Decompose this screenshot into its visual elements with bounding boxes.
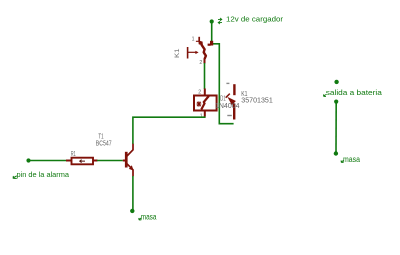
svg-text:12v de cargador: 12v de cargador bbox=[226, 15, 284, 24]
transistor T1: base stub bbox=[123, 160, 125, 162]
ground flag arrow bbox=[139, 218, 142, 220]
relay contact K1: bottom pin stub bbox=[204, 59, 206, 64]
net flag arrow for input bbox=[13, 176, 17, 179]
relay coil origin star bbox=[197, 101, 202, 106]
net flag arrow for salida bbox=[323, 94, 326, 96]
svg-text:1: 1 bbox=[192, 36, 195, 42]
wire: contact bottom to coil top bbox=[204, 63, 206, 89]
wire: junction to the right then down to diode bottom bbox=[213, 44, 234, 124]
node: left input dot bbox=[26, 158, 30, 162]
svg-text:pin de la alarma: pin de la alarma bbox=[17, 170, 70, 179]
transistor T1: base bar bbox=[125, 152, 128, 168]
diode D1: top unconnected pin mark bbox=[226, 83, 229, 84]
wire: input to resistor bbox=[29, 160, 67, 162]
relay contact K1: top terminal pin bbox=[198, 37, 200, 42]
relay coil K1: box bbox=[194, 96, 217, 111]
resistor value anchor arrow bbox=[80, 160, 85, 163]
svg-text:2: 2 bbox=[198, 89, 201, 95]
node: salida a bateria pin dot bbox=[334, 80, 338, 84]
node: right ground dot bbox=[334, 151, 338, 155]
svg-text:salida a bateria: salida a bateria bbox=[326, 88, 382, 97]
node: ground dot bottom center bbox=[130, 209, 134, 213]
svg-text:35701351: 35701351 bbox=[241, 98, 273, 105]
svg-text:masa: masa bbox=[343, 155, 360, 164]
relay contact K1: moving arm bbox=[201, 45, 206, 59]
wire: coil bottom left and down to transistor collector bbox=[133, 117, 205, 145]
svg-text:K1: K1 bbox=[175, 48, 181, 58]
diode D1: body (cathode bar + triangle, rotated 45deg) bbox=[226, 94, 230, 98]
node: +12v supply dot bbox=[210, 19, 214, 23]
svg-text:D1: D1 bbox=[220, 96, 225, 103]
wire: right vertical to ground bbox=[335, 102, 337, 153]
svg-text:R1: R1 bbox=[71, 151, 76, 158]
relay actuator line with arrow bbox=[187, 47, 189, 59]
wire: emitter down to ground bbox=[132, 176, 134, 210]
relay coil K1: diagonal stroke bbox=[201, 96, 209, 110]
svg-text:1N4004: 1N4004 bbox=[215, 103, 240, 110]
diode D1: top lead bbox=[233, 84, 235, 95]
ground flag arrow right bbox=[341, 160, 344, 162]
relay contact pin end blob at 12v junction bbox=[210, 41, 213, 46]
wire: resistor to transistor base bbox=[97, 160, 123, 162]
diode bottom pin mark bbox=[227, 115, 232, 116]
wire: +12v vertical drop from supply dot bbox=[211, 22, 213, 43]
svg-text:1: 1 bbox=[200, 113, 203, 119]
diode D1: bottom lead bbox=[233, 104, 235, 120]
resistor R1: left lead bbox=[66, 160, 72, 162]
transistor T1: collector diagonal and lead bbox=[127, 144, 133, 156]
transistor T1: emitter diagonal with arrow and lead bbox=[127, 164, 133, 176]
node: top of right wire bbox=[334, 100, 338, 104]
relay coil K1: bottom pin stub bbox=[204, 111, 206, 117]
svg-text:masa: masa bbox=[141, 212, 157, 221]
resistor R1: right lead bbox=[93, 160, 98, 162]
net flag arrows for 12v bbox=[218, 18, 222, 24]
svg-text:2: 2 bbox=[199, 60, 202, 66]
relay coil K1: top pin stub bbox=[204, 89, 206, 96]
svg-text:BC547: BC547 bbox=[96, 141, 112, 148]
svg-text:T1: T1 bbox=[98, 134, 103, 141]
resistor R1: box bbox=[72, 158, 94, 165]
